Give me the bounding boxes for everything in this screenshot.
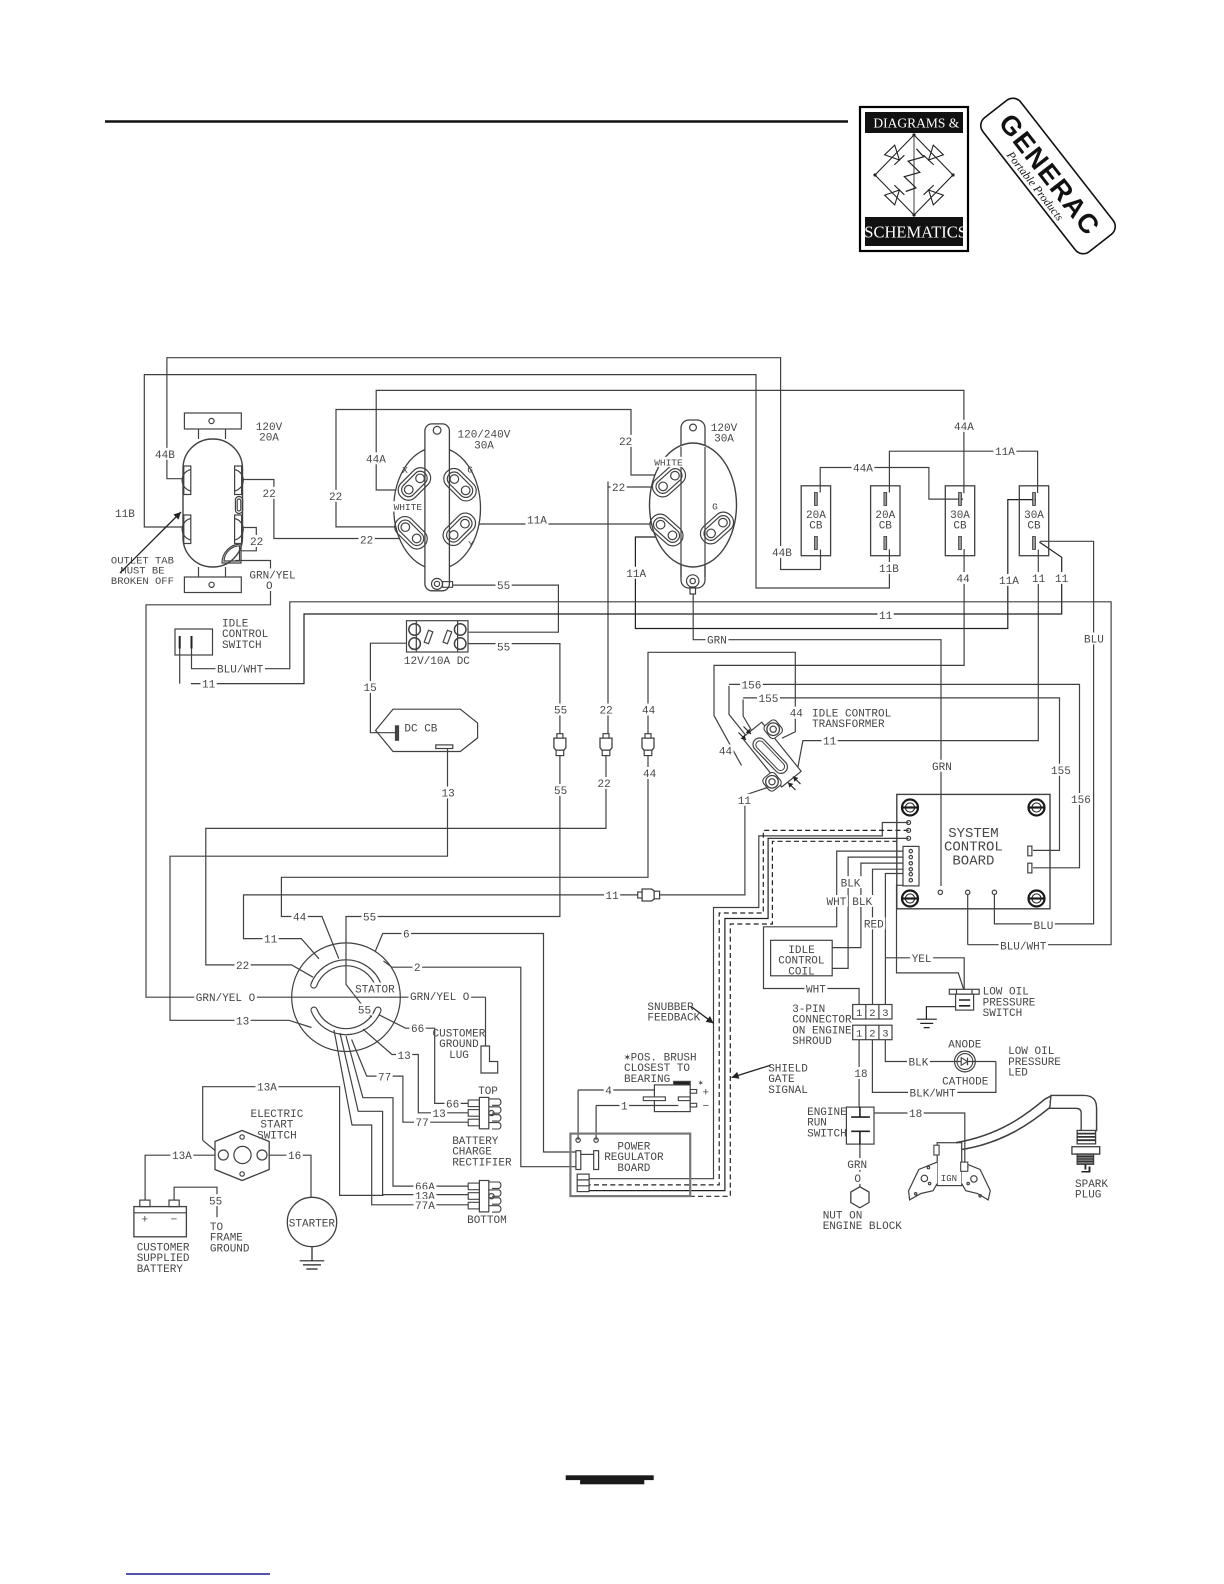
idle control coil: [771, 940, 833, 976]
svg-text:RED: RED: [864, 919, 884, 931]
svg-text:11B: 11B: [115, 509, 135, 521]
svg-text:GRN: GRN: [707, 636, 727, 648]
svg-text:55: 55: [363, 913, 376, 925]
wire net 4 (PRB to brush): [578, 1090, 654, 1140]
wire starter ground: [300, 1247, 325, 1270]
idle control switch: [175, 629, 213, 655]
shield pointer: [732, 1065, 771, 1077]
svg-text:55: 55: [358, 1006, 371, 1018]
wire net 11A (outlet2 Y to outlet3): [470, 523, 657, 525]
svg-text:RECTIFIER: RECTIFIER: [452, 1157, 512, 1169]
wire oil switch ground lead: [917, 1007, 956, 1028]
svg-text:12V/10A DC: 12V/10A DC: [404, 656, 470, 668]
svg-text:22: 22: [360, 536, 373, 548]
svg-text:BLK: BLK: [909, 1058, 929, 1070]
footer redaction bar: [566, 1475, 654, 1480]
svg-text:BOARD: BOARD: [952, 853, 994, 869]
svg-text:3: 3: [882, 1008, 888, 1020]
battery charge rectifier top connector: [479, 1097, 488, 1128]
3-pin connector on engine shroud: [853, 1005, 892, 1020]
svg-text:18: 18: [909, 1109, 922, 1121]
svg-text:+: +: [703, 1087, 710, 1099]
svg-text:BLU/WHT: BLU/WHT: [217, 665, 264, 677]
wire net 11 (CB4 via diagonal to idle switch): [191, 542, 1062, 684]
brush assembly: [654, 1085, 690, 1112]
svg-text:WHT: WHT: [806, 985, 826, 997]
svg-text:4: 4: [605, 1086, 612, 1098]
DC circuit breaker: [376, 709, 478, 751]
wire net 55 (outlet2 screw to 12V DC): [453, 585, 559, 632]
wire net 44B (outlet1 to 20A CB1): [167, 358, 821, 570]
svg-text:13A: 13A: [257, 1083, 277, 1095]
svg-text:11B: 11B: [879, 564, 899, 576]
wire snubber bundle line 1 (solid): [589, 823, 909, 1179]
svg-text:TOP: TOP: [478, 1086, 498, 1098]
svg-text:11: 11: [1055, 574, 1069, 586]
svg-text:155: 155: [759, 694, 779, 706]
wire net 156 (transformer to board): [729, 684, 1080, 867]
power regulator board U2: [570, 1134, 690, 1197]
wire net BLU/WHT board drop: [967, 895, 969, 945]
svg-text:22: 22: [600, 706, 613, 718]
svg-text:22: 22: [612, 483, 625, 495]
svg-text:GRN/YEL O: GRN/YEL O: [196, 993, 256, 1005]
outlet J2 120/240V 30A twist-lock: [394, 447, 481, 569]
svg-text:55: 55: [497, 642, 510, 654]
wire net 11B (outlet1 to 20A CB2): [144, 375, 889, 588]
svg-text:TRANSFORMER: TRANSFORMER: [812, 719, 885, 731]
label 1: [620, 1100, 630, 1112]
circuit breaker CB2 20A: [871, 486, 900, 556]
engine run switch: [846, 1107, 874, 1144]
wire snubber bundle line 3 (solid): [589, 838, 909, 1190]
svg-text:GRN: GRN: [932, 762, 952, 774]
svg-text:13A: 13A: [172, 1151, 192, 1163]
wire net 11 (transformer to bullet to stator): [244, 788, 768, 959]
logo: GENERAC Portable Products badge: [977, 94, 1119, 258]
svg-text:BLK: BLK: [852, 897, 872, 909]
svg-text:22: 22: [236, 961, 249, 973]
svg-text:SWITCH: SWITCH: [257, 1130, 297, 1142]
wire net 44 (bullet to idle transformer): [648, 652, 795, 738]
electric start switch: [215, 1131, 269, 1181]
label 4: [604, 1084, 614, 1096]
wire net 11A (outlet3 to CB4 top): [635, 500, 1036, 629]
low oil pressure LED: [955, 1051, 976, 1072]
label 55 stator center: [356, 1004, 372, 1016]
svg-text:55: 55: [209, 1196, 222, 1208]
svg-text:156: 156: [742, 680, 762, 692]
svg-text:13: 13: [398, 1051, 411, 1063]
svg-text:2: 2: [869, 1008, 875, 1020]
wire net 13 (DC CB to stator): [170, 749, 448, 1028]
svg-text:BATTERY: BATTERY: [137, 1264, 184, 1276]
svg-text:13: 13: [236, 1016, 249, 1028]
wire net BLU/WHT (idle switch to board): [192, 602, 1112, 945]
wire net board to oil switch 2nd: [897, 885, 964, 989]
wire net GRN/YEL (outlet1 ground to stator): [146, 561, 486, 998]
wire net 66A (stator to rectifier bottom): [346, 1036, 468, 1186]
svg-text:BLU: BLU: [1084, 635, 1104, 647]
svg-text:15: 15: [364, 683, 377, 695]
wire net BLU (board to CB4): [994, 541, 1093, 924]
wire net 66 (stator to rectifier top): [379, 1015, 469, 1104]
customer ground lug: [481, 1046, 498, 1073]
svg-text:44: 44: [642, 706, 656, 718]
svg-text:DC CB: DC CB: [404, 724, 437, 736]
svg-text:2: 2: [869, 1029, 875, 1041]
svg-text:DIAGRAMS &: DIAGRAMS &: [873, 115, 959, 130]
svg-text:1: 1: [856, 1029, 862, 1041]
wire snubber bundle line 4 (dashed): [589, 841, 897, 1196]
svg-text:IGN: IGN: [941, 1174, 957, 1184]
svg-text:G: G: [467, 464, 473, 475]
svg-text:GROUND: GROUND: [210, 1243, 250, 1255]
circuit breaker CB3 30A: [945, 486, 974, 556]
circuit breaker CB4 30A: [1019, 486, 1048, 556]
svg-text:66: 66: [411, 1024, 424, 1036]
svg-text:YEL: YEL: [912, 954, 932, 966]
svg-text:22: 22: [598, 779, 611, 791]
svg-text:CB: CB: [879, 521, 893, 533]
idle control transformer T1: [742, 722, 801, 787]
wire net YEL (board to low oil switch): [885, 874, 964, 1005]
label stator: [354, 983, 397, 995]
svg-text:44: 44: [293, 913, 307, 925]
wire snubber bundle line 2 (dashed): [589, 830, 909, 1185]
svg-text:WHITE: WHITE: [394, 502, 423, 513]
wire net 13A (stator to rectifier bottom): [340, 1033, 468, 1195]
svg-text:O: O: [854, 1174, 861, 1186]
svg-text:BLU: BLU: [1034, 921, 1054, 933]
wire net WHT (board to 3-pin connector): [764, 851, 904, 1004]
svg-text:66: 66: [446, 1099, 459, 1111]
svg-text:SWITCH: SWITCH: [222, 640, 262, 652]
svg-text:2: 2: [414, 963, 421, 975]
label cathode: [941, 1074, 990, 1086]
svg-text:77: 77: [416, 1118, 429, 1130]
svg-text:55: 55: [497, 581, 510, 593]
svg-text:LED: LED: [1008, 1068, 1028, 1080]
svg-text:22: 22: [329, 492, 342, 504]
wire net 44 (bullet to stator): [281, 756, 648, 959]
bullet connector 44: [645, 734, 651, 738]
bullet connector 55: [557, 734, 563, 738]
svg-text:ANODE: ANODE: [948, 1040, 981, 1052]
low oil pressure switch: [949, 989, 979, 994]
wire net 155 (transformer to board): [743, 698, 1059, 851]
wire net 22 (outlet1 to outlet2): [243, 480, 412, 539]
wire net 55 (12V DC to bullet): [468, 644, 560, 734]
circuit breaker CB1 20A: [801, 486, 830, 556]
spark plug: [956, 1096, 1051, 1143]
wire net 44 (CB3 to idle transformer): [714, 549, 964, 766]
system control board U1: [897, 794, 1050, 908]
svg-text:BLU/WHT: BLU/WHT: [1000, 941, 1047, 953]
wire net GRN/YEL right (stator to ground lug): [485, 997, 487, 1046]
wire net 55 (bullet to stator): [346, 756, 560, 1018]
svg-text:CB: CB: [809, 521, 823, 533]
svg-text:SIGNAL: SIGNAL: [768, 1085, 808, 1097]
svg-text:1: 1: [621, 1102, 628, 1114]
svg-text:156: 156: [1071, 795, 1091, 807]
svg-text:SWITCH: SWITCH: [983, 1008, 1023, 1020]
wire net 18 (run switch to ignition): [874, 1113, 964, 1162]
svg-text:30A: 30A: [714, 434, 734, 446]
wire net 11A (CB2 top to CB4 top): [889, 451, 1037, 493]
svg-text:O: O: [266, 581, 273, 593]
svg-text:44A: 44A: [853, 464, 873, 476]
wire net 2 (stator to power regulator board): [384, 961, 576, 1167]
svg-text:16: 16: [288, 1151, 301, 1163]
svg-text:Y: Y: [468, 539, 474, 550]
wire net 13A (start switch to rectifier): [203, 1087, 384, 1196]
svg-text:WHT: WHT: [827, 897, 847, 909]
svg-text:11: 11: [738, 796, 752, 808]
svg-text:44A: 44A: [366, 455, 386, 467]
svg-text:BLK/WHT: BLK/WHT: [910, 1088, 957, 1100]
svg-text:11A: 11A: [626, 569, 646, 581]
wire net 44A (outlet2 X to 30A CB3): [376, 390, 964, 493]
svg-text:SHROUD: SHROUD: [792, 1036, 832, 1048]
svg-text:11: 11: [264, 935, 278, 947]
svg-text:44: 44: [790, 709, 804, 721]
svg-text:SCHEMATICS: SCHEMATICS: [864, 222, 967, 241]
wire net GRN (run switch to nut): [859, 1144, 861, 1186]
svg-text:18: 18: [854, 1069, 867, 1081]
wire net 77A (stator to rectifier bottom): [334, 1030, 468, 1205]
svg-text:G: G: [712, 501, 718, 512]
svg-text:30A: 30A: [474, 441, 494, 453]
svg-text:PLUG: PLUG: [1075, 1190, 1101, 1202]
wire net BLK (3-pin to LED anode): [885, 1040, 954, 1062]
svg-text:X: X: [402, 465, 408, 476]
bullet connector 22: [603, 734, 609, 738]
svg-text:55: 55: [554, 706, 567, 718]
wire net 15 (12V DC to DC CB): [370, 643, 406, 733]
svg-text:BEARING: BEARING: [624, 1074, 670, 1086]
label WHITE outlet3: [653, 457, 685, 467]
svg-text:GRN: GRN: [847, 1160, 867, 1172]
wire net BLK/WHT (3-pin to LED cathode): [872, 1040, 996, 1092]
svg-text:CB: CB: [953, 521, 967, 533]
logo: Diagrams & Schematics: [860, 107, 968, 251]
wire net 22 (outlet3 to bullet): [608, 482, 667, 734]
wire net BLK (board to idle coil upper pin): [833, 863, 904, 948]
label IGN: [939, 1173, 958, 1183]
svg-text:44B: 44B: [772, 548, 792, 560]
wire net GRN (outlet3 to board): [693, 594, 941, 886]
outlet tab arrow: [120, 512, 181, 573]
svg-text:55: 55: [554, 786, 567, 798]
svg-text:11: 11: [823, 737, 837, 749]
svg-text:77: 77: [378, 1073, 391, 1085]
label WHITE outlet2: [392, 501, 424, 511]
wire labels: [154, 448, 177, 460]
svg-text:44: 44: [719, 747, 733, 759]
svg-text:44B: 44B: [155, 450, 175, 462]
wire net 22 (bullet to stator): [206, 756, 606, 978]
outlet J3 120V 30A twist-lock: [681, 420, 705, 588]
spark plug: [956, 1096, 1051, 1143]
svg-text:BLK: BLK: [841, 878, 861, 890]
svg-text:11A: 11A: [527, 516, 547, 528]
wire net 16 (start switch to starter): [267, 1155, 311, 1197]
battery charge rectifier bottom connector: [479, 1181, 488, 1212]
svg-text:11: 11: [606, 891, 620, 903]
wire net 77 (stator to rectifier top): [352, 1040, 469, 1123]
wire net 18 (3-pin to engine run switch): [858, 1040, 860, 1107]
svg-text:11: 11: [1032, 574, 1046, 586]
svg-text:13: 13: [433, 1109, 446, 1121]
wire outlet1 tab jumper: [242, 528, 257, 551]
page top rule: [105, 120, 848, 123]
outlet J1 120V 20A duplex: [199, 429, 226, 439]
starter: [287, 1197, 336, 1246]
wire net 22 (outlet2 white to outlet3 white): [336, 410, 670, 527]
wire net 44A (CB1 top to CB3 top): [820, 468, 963, 500]
svg-text:3: 3: [882, 1029, 888, 1041]
svg-text:1: 1: [856, 1008, 862, 1020]
wire net RED (board to 3-pin connector): [873, 869, 904, 1004]
svg-text:44: 44: [643, 769, 657, 781]
svg-text:22: 22: [263, 489, 276, 501]
spark plug: [956, 1096, 1051, 1143]
svg-text:44: 44: [957, 574, 971, 586]
svg-text:11: 11: [879, 611, 893, 623]
customer supplied battery: [134, 1207, 187, 1237]
stator: [292, 943, 401, 1052]
wire net 11 (CB4 to transformer): [797, 550, 1038, 772]
svg-text:−: −: [171, 1215, 178, 1227]
nut on engine block: [851, 1187, 869, 1208]
svg-text:−: −: [703, 1101, 710, 1113]
svg-text:ENGINE BLOCK: ENGINE BLOCK: [823, 1221, 903, 1233]
svg-text:44A: 44A: [954, 422, 974, 434]
svg-text:STARTER: STARTER: [289, 1219, 336, 1231]
svg-text:SWITCH: SWITCH: [807, 1128, 847, 1140]
svg-text:BOARD: BOARD: [617, 1163, 650, 1175]
svg-text:CB: CB: [1027, 521, 1041, 533]
snubber pointer: [692, 1007, 714, 1023]
svg-text:WHITE: WHITE: [654, 457, 683, 468]
wire LED anode lead: [975, 1061, 996, 1063]
12V/10A DC receptacle: [407, 621, 469, 652]
bullet connector 11: [638, 892, 642, 898]
svg-text:FEEDBACK: FEEDBACK: [647, 1013, 700, 1025]
svg-text:13: 13: [442, 789, 455, 801]
svg-text:22: 22: [250, 537, 263, 549]
svg-text:COIL: COIL: [788, 966, 814, 978]
svg-text:BOTTOM: BOTTOM: [467, 1215, 507, 1227]
svg-text:6: 6: [403, 930, 410, 942]
svg-text:11: 11: [202, 680, 216, 692]
svg-text:+: +: [142, 1215, 149, 1227]
svg-text:BROKEN OFF: BROKEN OFF: [111, 576, 174, 588]
wire idle switch left prong: [179, 649, 181, 684]
wire net 55 (battery to frame ground): [174, 1187, 217, 1217]
svg-text:22: 22: [619, 437, 632, 449]
svg-text:11A: 11A: [995, 447, 1015, 459]
svg-text:11A: 11A: [999, 576, 1019, 588]
wire net 6 (stator to power regulator board): [375, 934, 576, 1153]
svg-text:20A: 20A: [259, 433, 279, 445]
wire net BLK (board to idle coil lower pin): [833, 857, 904, 968]
svg-text:155: 155: [1051, 766, 1071, 778]
wire net 1 (PRB to brush): [596, 1106, 678, 1141]
svg-text:77A: 77A: [415, 1201, 435, 1213]
svg-text:LUG: LUG: [449, 1050, 469, 1062]
svg-text:STATOR: STATOR: [355, 985, 395, 997]
svg-text:GRN/YEL O: GRN/YEL O: [410, 992, 470, 1004]
ignition module: [937, 1143, 962, 1186]
wire net 13 (stator to rectifier top): [363, 1029, 468, 1113]
wire net 13A (battery to start switch): [145, 1155, 217, 1200]
footer blue rule: [126, 1573, 270, 1575]
